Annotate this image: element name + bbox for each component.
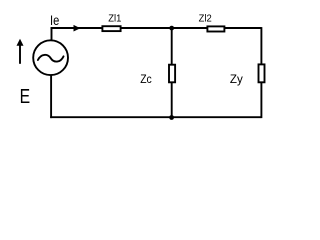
- resistor Zy: [259, 64, 265, 82]
- Zl1 label: [108, 14, 121, 25]
- voltage source E: [33, 40, 68, 75]
- node dot bottom: [169, 115, 174, 120]
- wire source drop: [50, 75, 52, 119]
- resistor Zl2: [207, 26, 224, 31]
- Zl2 label: [199, 13, 212, 24]
- svg-text:E: E: [20, 85, 31, 108]
- wire middle branch upper: [171, 28, 173, 64]
- E label: [20, 85, 31, 108]
- svg-text:Zl2: Zl2: [199, 13, 212, 24]
- node dot top: [169, 26, 174, 31]
- Zc label: [140, 72, 152, 86]
- resistor Zc: [169, 65, 175, 83]
- svg-text:Ie: Ie: [50, 12, 59, 28]
- svg-text:Zy: Zy: [230, 72, 243, 86]
- wire top rail: [51, 27, 262, 29]
- wire right branch lower: [260, 82, 262, 118]
- wire right branch upper: [260, 27, 262, 64]
- resistor Zl1: [102, 26, 120, 31]
- Ie label: [50, 12, 59, 28]
- svg-text:Zc: Zc: [140, 72, 152, 86]
- Zy label: [230, 72, 243, 86]
- wire source riser: [51, 27, 53, 41]
- wire middle branch lower: [171, 82, 173, 117]
- wire bottom rail: [50, 116, 261, 118]
- current arrow Ie: [74, 25, 81, 32]
- svg-text:Zl1: Zl1: [108, 14, 121, 25]
- E arrow: [17, 39, 24, 64]
